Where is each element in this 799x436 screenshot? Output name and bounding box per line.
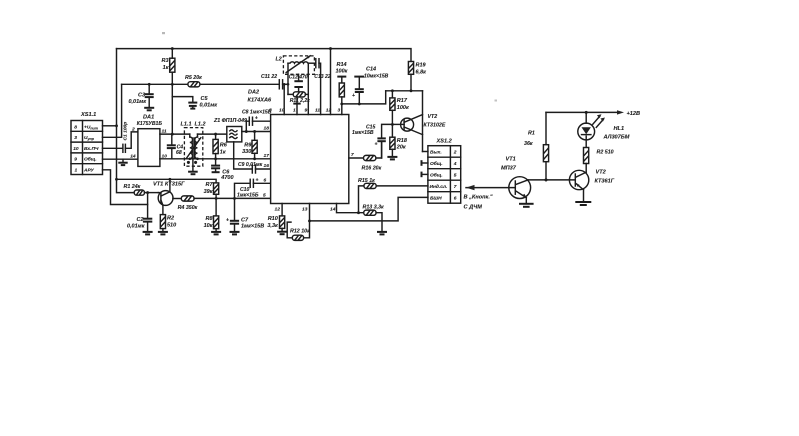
svg-text:Общ.: Общ.: [430, 172, 443, 179]
wire collector bus: [386, 90, 423, 92]
svg-text:С5: С5: [201, 96, 209, 102]
capacitor C4 68: [167, 134, 183, 159]
svg-text:В „Кнопк.": В „Кнопк.": [464, 195, 493, 201]
wire VT1 emitter down: [162, 205, 164, 214]
chassis stub row 4: [422, 160, 428, 166]
wire ARU row: [103, 170, 148, 205]
wire +12V rail: [546, 111, 617, 113]
node junction: [391, 89, 394, 92]
transistor VT1 KT315G: [153, 182, 185, 206]
svg-text:XS1.2: XS1.2: [436, 139, 453, 145]
ground on pin14 wire: [118, 159, 127, 165]
wire left supply vertical: [117, 49, 135, 193]
svg-text:68: 68: [176, 150, 182, 156]
svg-text:L1.1: L1.1: [181, 121, 192, 127]
noise speck: [495, 100, 498, 102]
svg-text:АЛ307БМ: АЛ307БМ: [603, 135, 630, 141]
svg-text:R14: R14: [337, 62, 347, 68]
transistor VT2 KT3102E: [392, 91, 445, 152]
svg-text:R18: R18: [397, 138, 408, 144]
svg-text:4: 4: [453, 161, 457, 167]
wire node pin3: [342, 91, 386, 104]
svg-text:1мк×15В: 1мк×15В: [352, 130, 374, 136]
transistor VT1 MP37: [466, 157, 531, 199]
svg-text:R2 510: R2 510: [597, 150, 614, 156]
node junction: [188, 157, 191, 160]
wire R1 to VT1 base: [145, 192, 159, 194]
svg-text:6,8к: 6,8к: [416, 70, 428, 76]
svg-text:R7: R7: [205, 182, 213, 188]
capacitor C11 22: [261, 74, 288, 89]
svg-text:100к: 100к: [397, 105, 410, 111]
capacitor C9 0,01mk: [238, 162, 271, 173]
resistor R9 330: [242, 132, 257, 159]
wire pin12 from top rail: [330, 49, 332, 115]
resistor R7 39k: [204, 182, 219, 198]
node junction: [308, 219, 311, 222]
wire bottom common: [160, 158, 271, 160]
svg-text:L2: L2: [276, 57, 282, 63]
svg-text:R9: R9: [244, 143, 252, 149]
svg-text:1мк×15Б: 1мк×15Б: [237, 192, 259, 198]
svg-text:10: 10: [73, 146, 79, 152]
filter Z1 FP1P-049: [213, 118, 247, 142]
resistor R11 2,2k: [288, 92, 310, 104]
svg-text:R15 1к: R15 1к: [358, 178, 375, 184]
connector XS1.1: [71, 112, 103, 175]
svg-text:АРУ: АРУ: [83, 168, 95, 174]
svg-text:С8 1мк×15В: С8 1мк×15В: [242, 110, 272, 116]
svg-text:Z1 ФП1П-049: Z1 ФП1П-049: [213, 118, 247, 124]
node junction: [233, 197, 236, 200]
node junction: [253, 157, 256, 160]
svg-text:1: 1: [293, 107, 296, 113]
capacitor C2 0,01mk: [127, 205, 152, 232]
wire Vx.PCh row: [103, 147, 123, 149]
svg-text:20к: 20к: [396, 145, 407, 151]
capacitor C8 1mk x 15V: [242, 110, 272, 132]
svg-text:VT1 КТ315Г: VT1 КТ315Г: [153, 182, 185, 188]
svg-text:4700: 4700: [220, 175, 233, 181]
wire base bus: [528, 179, 575, 181]
node junction: [357, 211, 360, 214]
svg-text:3: 3: [74, 135, 77, 141]
wire pin8 +Upit row: [103, 125, 117, 127]
svg-text:С3: С3: [138, 93, 145, 99]
IC DA1 K175UV1B: [137, 115, 163, 167]
transistor VT2 KT361G: [569, 170, 614, 190]
svg-text:16: 16: [264, 163, 270, 169]
node junction: [115, 124, 118, 127]
wire Obsch row to DA1 pin14: [103, 158, 138, 160]
svg-text:R8: R8: [205, 216, 213, 222]
node junction: [585, 111, 588, 114]
svg-text:КТ3102Е: КТ3102Е: [424, 123, 446, 129]
capacitor C15 1mk x 15V: [352, 124, 392, 158]
node junction: [253, 130, 256, 133]
node junction: [214, 157, 217, 160]
capacitor C3 0,01mk: [128, 84, 153, 107]
svg-text:R13 3,3к: R13 3,3к: [363, 204, 385, 210]
wire rail2 right part: [200, 83, 279, 85]
svg-text:14: 14: [130, 153, 136, 159]
svg-text:К175УВ1Б: К175УВ1Б: [137, 121, 163, 127]
wire DA1 pin11: [160, 133, 190, 135]
node junction: [146, 191, 149, 194]
resistor R12 10k: [287, 222, 310, 240]
ground under C7: [230, 232, 240, 235]
svg-text:R1 24к: R1 24к: [124, 184, 141, 190]
capacitor C1 100p: [123, 122, 129, 153]
wire R4 to node: [194, 197, 271, 199]
ground under R13: [377, 232, 387, 235]
svg-text:39к: 39к: [204, 189, 214, 195]
wire Z1 bottom to C9: [234, 142, 252, 169]
node junction: [391, 123, 394, 126]
resistor R4 350k: [178, 196, 198, 211]
node junction: [358, 102, 361, 105]
ground under C3: [144, 108, 154, 111]
wire L1.2 top to Z1: [198, 133, 227, 135]
svg-text:С9 0,01мк: С9 0,01мк: [238, 162, 263, 168]
svg-text:R12 10к: R12 10к: [290, 229, 310, 235]
svg-text:1к: 1к: [220, 150, 227, 156]
svg-text:1к: 1к: [163, 65, 170, 71]
svg-text:R5 20к: R5 20к: [185, 75, 202, 81]
svg-text:+: +: [226, 218, 229, 224]
connector XS1.2: [428, 139, 461, 204]
svg-text:3: 3: [338, 107, 341, 113]
svg-text:0,01мк: 0,01мк: [200, 103, 219, 109]
svg-text:DA2: DA2: [248, 90, 259, 96]
node junction: [287, 83, 290, 86]
node junction: [115, 178, 118, 181]
svg-text:VT1: VT1: [506, 157, 516, 163]
wire BShN long: [310, 197, 428, 221]
node junction: [214, 133, 217, 136]
svg-text:XS1.1: XS1.1: [80, 112, 96, 118]
svg-text:R4 350к: R4 350к: [178, 205, 198, 211]
resistor R1 24k: [124, 184, 145, 195]
svg-text:R2: R2: [167, 216, 174, 222]
ground under transformer: [188, 159, 198, 174]
svg-text:+: +: [352, 93, 355, 99]
svg-text:11: 11: [315, 107, 320, 113]
svg-text:13: 13: [302, 206, 308, 212]
wire Z1 output pin18: [242, 131, 271, 133]
svg-text:1: 1: [75, 168, 78, 174]
ground under VT2-361: [575, 202, 591, 205]
LED HL1 AL307BM: [578, 112, 630, 147]
wire Uupr row to rail2: [103, 84, 122, 137]
resistor R16 20k: [349, 141, 382, 171]
svg-text:2: 2: [131, 127, 135, 133]
svg-text:МП37: МП37: [501, 166, 517, 172]
chassis stub row 5: [422, 172, 428, 178]
resistor R13 3,3k: [363, 204, 385, 231]
svg-text:17: 17: [264, 153, 270, 159]
wire R3 vertical to pin11 wire: [171, 84, 173, 134]
svg-text:DA1: DA1: [143, 115, 154, 121]
capacitor C7 1mk x 15V: [226, 198, 264, 231]
resistor R17 100k: [390, 91, 410, 125]
resistor R2 510: [584, 148, 614, 173]
wire VT1 emitter: [525, 198, 527, 204]
capacitor C10 1mk x 15B: [235, 178, 271, 199]
svg-text:С ДЧМ: С ДЧМ: [464, 205, 483, 211]
svg-text:10к: 10к: [204, 223, 214, 229]
svg-text:100к: 100к: [336, 69, 349, 75]
ground under R10: [277, 232, 287, 235]
ground under C2: [143, 232, 153, 235]
svg-text:С2: С2: [136, 217, 143, 223]
node junction: [245, 130, 248, 133]
svg-text:510: 510: [167, 223, 176, 229]
wire C1 to DA1 pin2: [125, 132, 137, 148]
annotation arrow text: [464, 195, 493, 211]
svg-text:Общ.: Общ.: [84, 156, 97, 163]
wire pin13 to BShN row: [304, 204, 310, 238]
svg-text:L1.2: L1.2: [195, 121, 206, 127]
svg-text:9: 9: [74, 157, 77, 163]
resistor R1 36k: [524, 112, 549, 179]
node junction: [283, 83, 286, 86]
svg-text:2: 2: [453, 150, 457, 156]
ground bar pin1: [293, 97, 300, 115]
noise speck: [162, 32, 165, 34]
svg-text:С11 22: С11 22: [261, 74, 277, 80]
ground under R2: [158, 229, 168, 235]
resistor R18 20k: [390, 124, 408, 156]
IC DA2 K174XA6: [248, 90, 349, 204]
svg-text:+: +: [255, 116, 258, 122]
resistor R2 510: [160, 215, 176, 229]
svg-text:6: 6: [454, 196, 457, 202]
ground under R18: [387, 157, 397, 160]
svg-text:С1 100р: С1 100р: [123, 122, 129, 141]
coil L2: [276, 56, 315, 115]
ground under VT1: [519, 204, 534, 207]
svg-text:18: 18: [264, 126, 270, 132]
wire +U horizontal: [117, 179, 217, 183]
svg-text:1мк×15В: 1мк×15В: [241, 224, 264, 230]
wire pin14 net: [337, 204, 364, 213]
wire VT2-361 emitter: [583, 190, 585, 202]
svg-text:Общ.: Общ.: [430, 160, 443, 167]
svg-text:12: 12: [275, 206, 281, 212]
wire C5 branch: [172, 97, 193, 103]
svg-text:7: 7: [454, 184, 457, 190]
node junction: [196, 157, 199, 160]
svg-text:5: 5: [263, 193, 266, 199]
svg-text:0,01мк: 0,01мк: [128, 99, 147, 105]
node junction: [171, 83, 174, 86]
transformer L1.1 L1.2: [181, 121, 206, 166]
svg-text:R10: R10: [268, 216, 278, 222]
svg-text:+12В: +12В: [627, 111, 641, 117]
svg-text:330: 330: [242, 149, 251, 155]
svg-text:С13 22: С13 22: [314, 74, 331, 80]
node junction: [171, 133, 174, 136]
resistor R10 3,3k: [267, 204, 284, 232]
svg-text:VT2: VT2: [428, 114, 438, 120]
wire pin3 stub: [341, 104, 343, 115]
capacitor C14 10mk x 15V: [352, 67, 389, 104]
node junction: [340, 102, 343, 105]
svg-text:3,3к: 3,3к: [267, 223, 279, 229]
svg-text:R6: R6: [220, 143, 228, 149]
svg-text:Вх.ПЧ: Вх.ПЧ: [84, 146, 99, 152]
wire VT2 emitter to Vyh row: [423, 151, 428, 153]
wire rail2: [122, 83, 188, 85]
resistor R5 20k: [185, 75, 202, 87]
node junction: [215, 197, 218, 200]
svg-text:Вых.: Вых.: [430, 150, 442, 156]
svg-text:7: 7: [351, 152, 354, 158]
node junction: [329, 47, 332, 50]
svg-text:R17: R17: [397, 98, 408, 104]
node junction: [168, 178, 171, 181]
resistor R3 1k: [161, 49, 174, 85]
svg-text:36к: 36к: [524, 141, 533, 147]
wire pin10 vertical: [283, 84, 285, 114]
capacitor C6 4700: [211, 159, 233, 181]
svg-text:5: 5: [454, 173, 457, 179]
resistor R6 1k: [213, 134, 228, 159]
svg-text:10мк×15В: 10мк×15В: [364, 73, 389, 79]
svg-text:6: 6: [264, 178, 267, 184]
capacitor C12 470: [289, 74, 308, 92]
svg-text:Инд.сл.: Инд.сл.: [430, 184, 448, 190]
arrow +12V: [617, 110, 624, 114]
node junction: [410, 89, 413, 92]
wire VT1 collector to +U wire: [169, 179, 171, 192]
svg-text:R19: R19: [416, 63, 427, 69]
svg-text:+: +: [375, 142, 378, 148]
svg-text:КТ361Г: КТ361Г: [595, 179, 615, 185]
wire VT1 emitter output: [173, 198, 181, 200]
svg-text:0,01мк: 0,01мк: [127, 224, 146, 230]
node junction: [544, 178, 547, 181]
wire top +U rail: [117, 49, 412, 62]
svg-text:R3: R3: [161, 58, 168, 64]
svg-text:R1: R1: [528, 131, 535, 137]
node junction: [171, 47, 174, 50]
ground under R8: [211, 229, 221, 235]
svg-text:С14: С14: [366, 67, 376, 73]
svg-text:HL1: HL1: [614, 126, 625, 132]
resistor R19 6,8k: [408, 62, 427, 91]
resistor R15 1k: [358, 178, 428, 213]
svg-text:9: 9: [305, 107, 308, 113]
capacitor C5 0,01mk: [188, 96, 218, 109]
resistor R8 10k: [204, 198, 219, 229]
svg-text:К174ХА6: К174ХА6: [248, 98, 273, 104]
svg-text:14: 14: [330, 206, 336, 212]
svg-text:8: 8: [269, 107, 272, 113]
capacitor C13 22: [308, 59, 331, 115]
svg-text:+: +: [256, 178, 259, 184]
svg-text:8: 8: [74, 124, 77, 130]
node junction: [148, 83, 151, 86]
resistor R14 100k: [336, 62, 349, 104]
svg-text:R16 20к: R16 20к: [362, 166, 382, 172]
svg-text:VT2: VT2: [596, 170, 607, 176]
svg-text:С12 470: С12 470: [289, 75, 308, 81]
svg-text:БШН: БШН: [430, 196, 442, 202]
